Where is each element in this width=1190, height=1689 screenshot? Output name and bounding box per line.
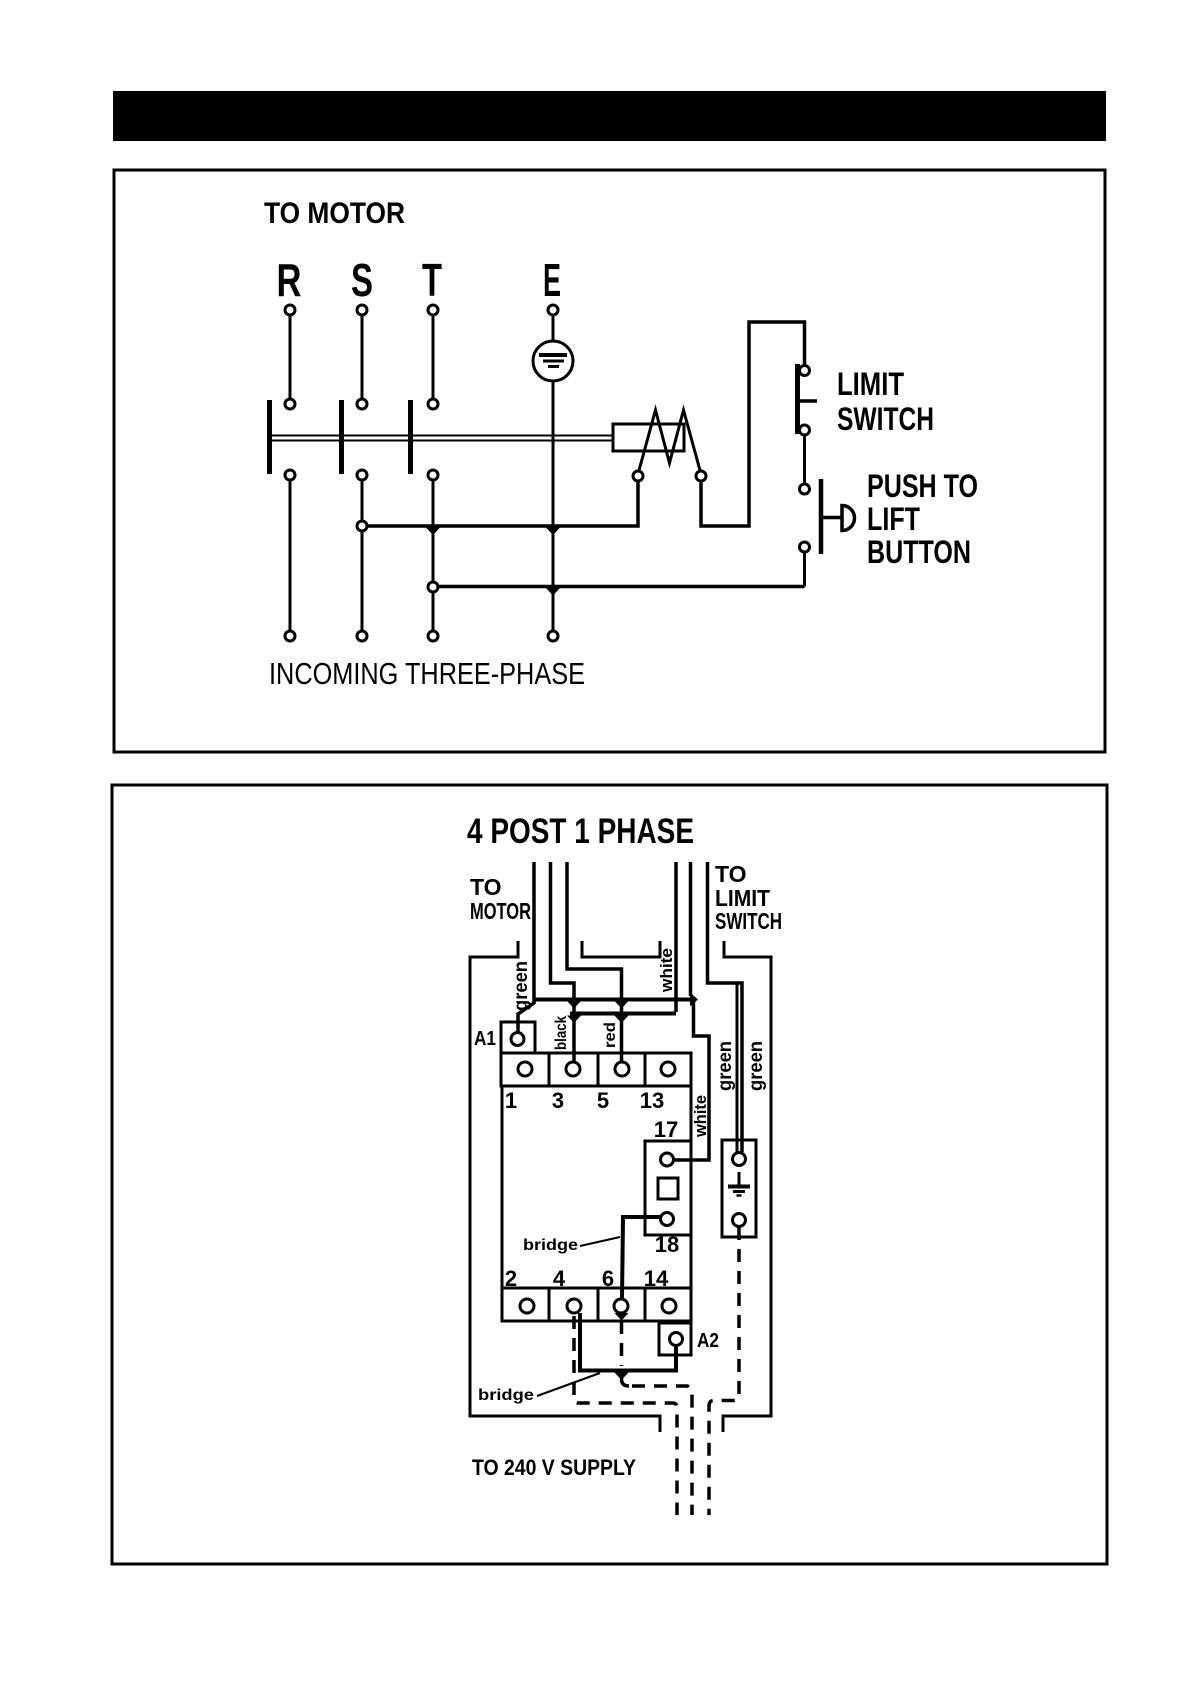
- label 5: [597, 1088, 609, 1113]
- svg-text:MOTOR: MOTOR: [470, 898, 531, 924]
- auxiliary block 17 18: [645, 1141, 691, 1235]
- push button terminal top: [800, 484, 810, 494]
- label bridge bottom: [478, 1373, 600, 1404]
- svg-text:red: red: [602, 1022, 619, 1048]
- svg-text:17: 17: [654, 1117, 678, 1142]
- label 6: [602, 1266, 614, 1291]
- svg-text:T: T: [422, 254, 442, 306]
- contact circle T lower: [428, 470, 438, 480]
- svg-text:R: R: [277, 254, 302, 306]
- wire limit switch to push button: [803, 435, 806, 483]
- dashed supply wire from terminal 6: [622, 1321, 693, 1515]
- terminal S bottom: [357, 631, 367, 641]
- junction arrow below terminal 6: [615, 1313, 629, 1321]
- label 14: [644, 1266, 669, 1291]
- label 17: [654, 1117, 678, 1142]
- svg-text:S: S: [351, 254, 373, 306]
- label LIMIT SWITCH: [837, 366, 934, 437]
- wire incoming limit switch 2: [689, 862, 693, 996]
- svg-text:white: white: [657, 948, 676, 993]
- svg-text:TO MOTOR: TO MOTOR: [264, 197, 405, 230]
- limit switch terminal top: [800, 366, 810, 376]
- svg-text:3: 3: [552, 1088, 564, 1113]
- terminal 6: [614, 1299, 628, 1313]
- title 4 POST 1 PHASE: [467, 812, 694, 851]
- push button bar: [819, 479, 824, 554]
- label 18: [655, 1232, 679, 1257]
- wire label black: [553, 1016, 570, 1050]
- node S label: [351, 254, 373, 306]
- crossover mark rail1 T: [426, 528, 440, 536]
- box frame diagram 2: [112, 785, 1107, 1564]
- wire label green left: [511, 961, 532, 1011]
- svg-text:13: 13: [640, 1088, 664, 1113]
- push button terminal bottom: [800, 542, 810, 552]
- junction arrow bus2 black: [567, 1016, 581, 1024]
- junction arrow bus1 red: [615, 1001, 629, 1009]
- svg-text:14: 14: [644, 1266, 669, 1291]
- junction node S rail1: [357, 521, 367, 531]
- coil terminal right: [696, 471, 706, 481]
- svg-text:PUSH TO: PUSH TO: [867, 468, 978, 504]
- svg-text:4: 4: [553, 1266, 566, 1291]
- svg-text:SWITCH: SWITCH: [837, 401, 934, 437]
- contact circle T upper: [428, 399, 438, 409]
- wire push button to rail2: [803, 553, 806, 587]
- wire label green 2: [746, 1041, 767, 1091]
- terminal R bottom: [285, 631, 295, 641]
- svg-text:BUTTON: BUTTON: [867, 534, 971, 570]
- dashed supply wire from terminal 4: [574, 1316, 677, 1515]
- enclosure outline right and bottom-right: [723, 941, 771, 1432]
- earth block: [722, 1140, 756, 1237]
- earth block terminal top: [733, 1153, 746, 1166]
- contact circle R upper: [285, 399, 295, 409]
- terminal 3: [566, 1062, 580, 1076]
- limit switch terminal bottom: [800, 425, 810, 435]
- wire red incoming to terminal 5: [567, 862, 622, 1061]
- terminal box A1: [501, 1022, 535, 1053]
- label A1: [474, 1028, 496, 1050]
- label 3: [552, 1088, 564, 1113]
- terminal 17: [661, 1153, 674, 1166]
- svg-text:A1: A1: [474, 1028, 496, 1050]
- label 1: [505, 1088, 517, 1113]
- rail 1 wire S to coil: [362, 482, 638, 527]
- label 2: [505, 1266, 517, 1291]
- svg-text:TO: TO: [715, 861, 747, 887]
- wire S lower: [361, 481, 364, 631]
- wire coil right to limit switch: [701, 322, 805, 526]
- contactor bar R: [267, 400, 272, 474]
- box frame diagram 1: [114, 170, 1105, 752]
- wire R lower: [289, 481, 292, 631]
- wire white incoming limit switch: [674, 862, 678, 1012]
- svg-text:1: 1: [505, 1088, 517, 1113]
- wire label green 1: [715, 1041, 736, 1091]
- earth block terminal bottom: [733, 1214, 746, 1227]
- bridge wire 18 to 6: [622, 1217, 660, 1299]
- label PUSH TO LIFT BUTTON: [867, 468, 978, 570]
- wire green incoming to A1: [518, 862, 534, 1032]
- svg-text:TO: TO: [470, 874, 502, 900]
- label 13: [640, 1088, 664, 1113]
- terminal T top: [428, 305, 438, 315]
- svg-text:INCOMING THREE-PHASE: INCOMING THREE-PHASE: [269, 656, 585, 691]
- svg-text:green: green: [715, 1041, 736, 1091]
- wire E lower: [552, 381, 555, 631]
- svg-text:6: 6: [602, 1266, 614, 1291]
- terminal strip top: [501, 1053, 691, 1086]
- limit switch actuator tick: [799, 399, 817, 403]
- wire E top: [552, 316, 555, 342]
- wire green second run to earth block: [736, 985, 739, 1153]
- rail 2 wire T to push button: [433, 585, 805, 589]
- crossover mark rail2 E: [546, 588, 560, 596]
- svg-text:green: green: [511, 961, 532, 1011]
- mechanical link double line: [271, 436, 613, 441]
- contactor bar S: [339, 400, 344, 474]
- terminal 2: [520, 1299, 534, 1313]
- terminal 4: [567, 1299, 581, 1313]
- label TO MOTOR: [264, 197, 405, 230]
- wire green incoming to earth block: [708, 862, 743, 1152]
- svg-text:LIFT: LIFT: [867, 501, 920, 537]
- terminal 18: [661, 1213, 674, 1226]
- limit switch bar: [795, 364, 800, 434]
- svg-text:TO 240 V SUPPLY: TO 240 V SUPPLY: [472, 1455, 636, 1480]
- header redacted bar: [113, 91, 1106, 141]
- junction node T rail2: [428, 582, 438, 592]
- terminal strip bottom: [502, 1288, 691, 1321]
- svg-text:E: E: [543, 254, 561, 306]
- junction arrow bridge supply: [615, 1373, 629, 1381]
- terminal box A2: [659, 1323, 691, 1355]
- wire white bus to terminal 17: [674, 1001, 709, 1160]
- node T label: [422, 254, 442, 306]
- terminal R top: [285, 305, 295, 315]
- crossover mark rail1 E: [546, 528, 560, 536]
- svg-text:2: 2: [505, 1266, 517, 1291]
- label bridge top: [523, 1237, 620, 1254]
- coil box K1: [613, 424, 684, 451]
- wire T lower: [432, 481, 435, 631]
- svg-text:bridge: bridge: [523, 1237, 578, 1254]
- enclosure outline left and bottom-left: [470, 941, 660, 1432]
- wire S top: [361, 316, 364, 399]
- dashed earth wire from earth block: [709, 1227, 739, 1515]
- svg-text:4 POST 1 PHASE: 4 POST 1 PHASE: [467, 812, 694, 851]
- svg-text:white: white: [691, 1095, 710, 1138]
- svg-text:green: green: [746, 1041, 767, 1091]
- wire R top: [289, 316, 292, 399]
- label TO MOTOR d2: [470, 874, 531, 924]
- svg-text:black: black: [553, 1016, 570, 1050]
- junction arrow bus2 red: [615, 1016, 629, 1024]
- contact circle R lower: [285, 470, 295, 480]
- earth symbol E: [533, 341, 573, 381]
- wire black incoming to terminal 3: [551, 862, 575, 1061]
- push button cap D: [842, 506, 855, 531]
- label A2: [697, 1330, 719, 1352]
- terminal 13: [661, 1062, 675, 1076]
- junction arrow bus1 black: [567, 1001, 581, 1009]
- label 4: [553, 1266, 566, 1291]
- label INCOMING THREE-PHASE: [269, 656, 585, 691]
- contactor bar T: [408, 400, 413, 474]
- terminal 5: [615, 1062, 629, 1076]
- terminal E top: [548, 305, 558, 315]
- label TO 240 V SUPPLY: [472, 1455, 636, 1480]
- node R label: [277, 254, 302, 306]
- coil spring zigzag: [638, 410, 701, 474]
- push button stem: [823, 516, 842, 520]
- bridge wire 4 to A2: [580, 1313, 676, 1371]
- svg-text:SWITCH: SWITCH: [715, 908, 782, 934]
- terminal 1: [518, 1062, 532, 1076]
- svg-text:18: 18: [655, 1232, 679, 1257]
- junction arrow bus1 end: [690, 993, 698, 1007]
- terminal S top: [357, 305, 367, 315]
- terminal E bottom: [548, 631, 558, 641]
- terminal 14: [662, 1299, 676, 1313]
- wire label red: [602, 1022, 619, 1048]
- terminal T bottom: [428, 631, 438, 641]
- svg-text:A2: A2: [697, 1330, 719, 1352]
- svg-text:LIMIT: LIMIT: [837, 366, 904, 402]
- contact circle S upper: [357, 399, 367, 409]
- coil square symbol: [658, 1178, 678, 1199]
- node E label: [543, 254, 561, 306]
- wire label white lower: [691, 1095, 710, 1138]
- bus wire lower: [570, 1012, 676, 1016]
- enclosure outline top middle segment: [582, 941, 660, 957]
- contact circle S lower: [357, 470, 367, 480]
- wire T top: [432, 316, 435, 399]
- label TO LIMIT SWITCH d2: [715, 861, 782, 934]
- svg-text:bridge: bridge: [478, 1387, 534, 1404]
- contactor body: [502, 1086, 691, 1288]
- bus wire upper: [534, 998, 691, 1002]
- svg-text:5: 5: [597, 1088, 609, 1113]
- wire label white upper: [657, 948, 676, 993]
- earth symbol small: [728, 1172, 750, 1196]
- coil terminal left: [633, 471, 643, 481]
